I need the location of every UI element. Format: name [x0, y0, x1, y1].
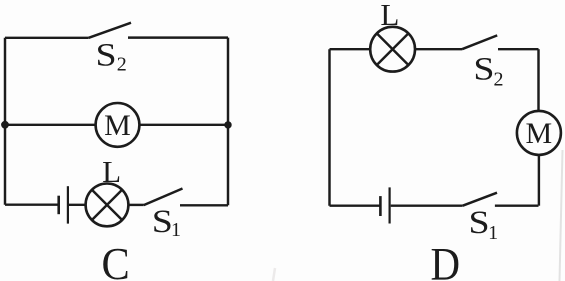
svg-text:M: M [104, 109, 131, 142]
svg-text:2: 2 [494, 69, 504, 91]
svg-text:D: D [431, 239, 461, 281]
svg-text:S: S [473, 50, 494, 87]
svg-text:2: 2 [117, 54, 127, 76]
svg-text:M: M [526, 117, 553, 150]
svg-text:1: 1 [488, 222, 498, 244]
svg-text:1: 1 [171, 219, 181, 241]
svg-text:S: S [468, 203, 489, 240]
svg-text:C: C [101, 239, 129, 281]
svg-text:S: S [152, 202, 173, 239]
svg-text:L: L [102, 154, 121, 189]
svg-text:S: S [96, 36, 117, 73]
svg-text:L: L [380, 0, 399, 32]
